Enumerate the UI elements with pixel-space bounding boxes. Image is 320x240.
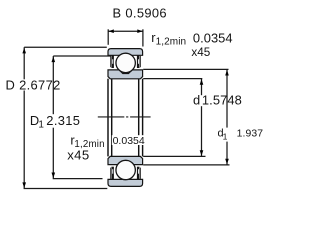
bore right chamfer line [138, 79, 140, 157]
dimension D1 arrow up [52, 57, 56, 63]
dimension D line [24, 47, 107, 188]
label 0.0354 mid (over bore) [112, 135, 144, 145]
svg-text:x45: x45 [191, 46, 210, 59]
svg-text:1: 1 [223, 131, 228, 141]
svg-text:1.5748: 1.5748 [202, 93, 242, 108]
outer ring top section [108, 49, 143, 56]
outer ring bottom section [108, 179, 143, 186]
dimension B extension line left [107, 29, 109, 45]
dimension d1 extension bottom [143, 164, 229, 166]
race edge left (top assembly) [111, 55, 114, 68]
label d1 1.937 [217, 128, 259, 142]
ring land line right (bottom) [140, 168, 142, 180]
bore left chamfer line [111, 79, 113, 157]
bore left face line [107, 79, 109, 157]
dimension d1 line [226, 69, 228, 164]
dimension d1 extension top [143, 68, 228, 70]
dimension D arrow down [22, 182, 26, 188]
dimension D1 line [53, 56, 111, 179]
dimension D1 arrow down [52, 173, 56, 179]
svg-text:x45: x45 [67, 148, 89, 163]
ball top [116, 53, 135, 72]
dimension d extension bottom [143, 155, 205, 157]
dimension d line [201, 79, 203, 157]
svg-text:1.937: 1.937 [237, 129, 264, 140]
label d 1.5748 [192, 95, 240, 106]
label D 2.6772 [6, 79, 62, 90]
ball bottom [116, 160, 135, 179]
ring land line right (top) [140, 56, 142, 68]
race edge right (top assembly) [137, 55, 140, 68]
race edge right (bottom assembly) [137, 167, 140, 180]
svg-text:0.0354: 0.0354 [113, 135, 145, 147]
race edge left (bottom assembly) [111, 167, 114, 180]
dimension d1 arrow up [225, 70, 229, 76]
svg-text:D 2.6772: D 2.6772 [6, 78, 61, 93]
dimension d1 arrow down [225, 159, 229, 165]
dimension d arrow up [200, 79, 204, 85]
svg-text:B 0.5906: B 0.5906 [113, 6, 167, 21]
dimension d arrow down [200, 150, 204, 156]
bore right face line [142, 79, 144, 157]
ring land line left (top) [110, 56, 112, 68]
dimension B arrow left [108, 29, 113, 33]
svg-text:0.0354: 0.0354 [193, 30, 233, 45]
ring land line left (bottom) [110, 168, 112, 180]
dimension B arrow right [137, 29, 142, 33]
dimension d extension top [143, 78, 202, 80]
inner ring bottom section [108, 156, 143, 164]
dimension B line [108, 30, 143, 32]
svg-text:1,2min: 1,2min [156, 36, 187, 47]
svg-text:1: 1 [38, 119, 44, 130]
label D1 2.315 [29, 114, 80, 128]
svg-text:d: d [193, 93, 200, 108]
dimension B extension line right [142, 29, 144, 46]
dimension D arrow up [22, 48, 26, 54]
inner ring top section [108, 70, 143, 79]
svg-text:2.315: 2.315 [46, 113, 80, 128]
centerline axis [98, 116, 151, 118]
